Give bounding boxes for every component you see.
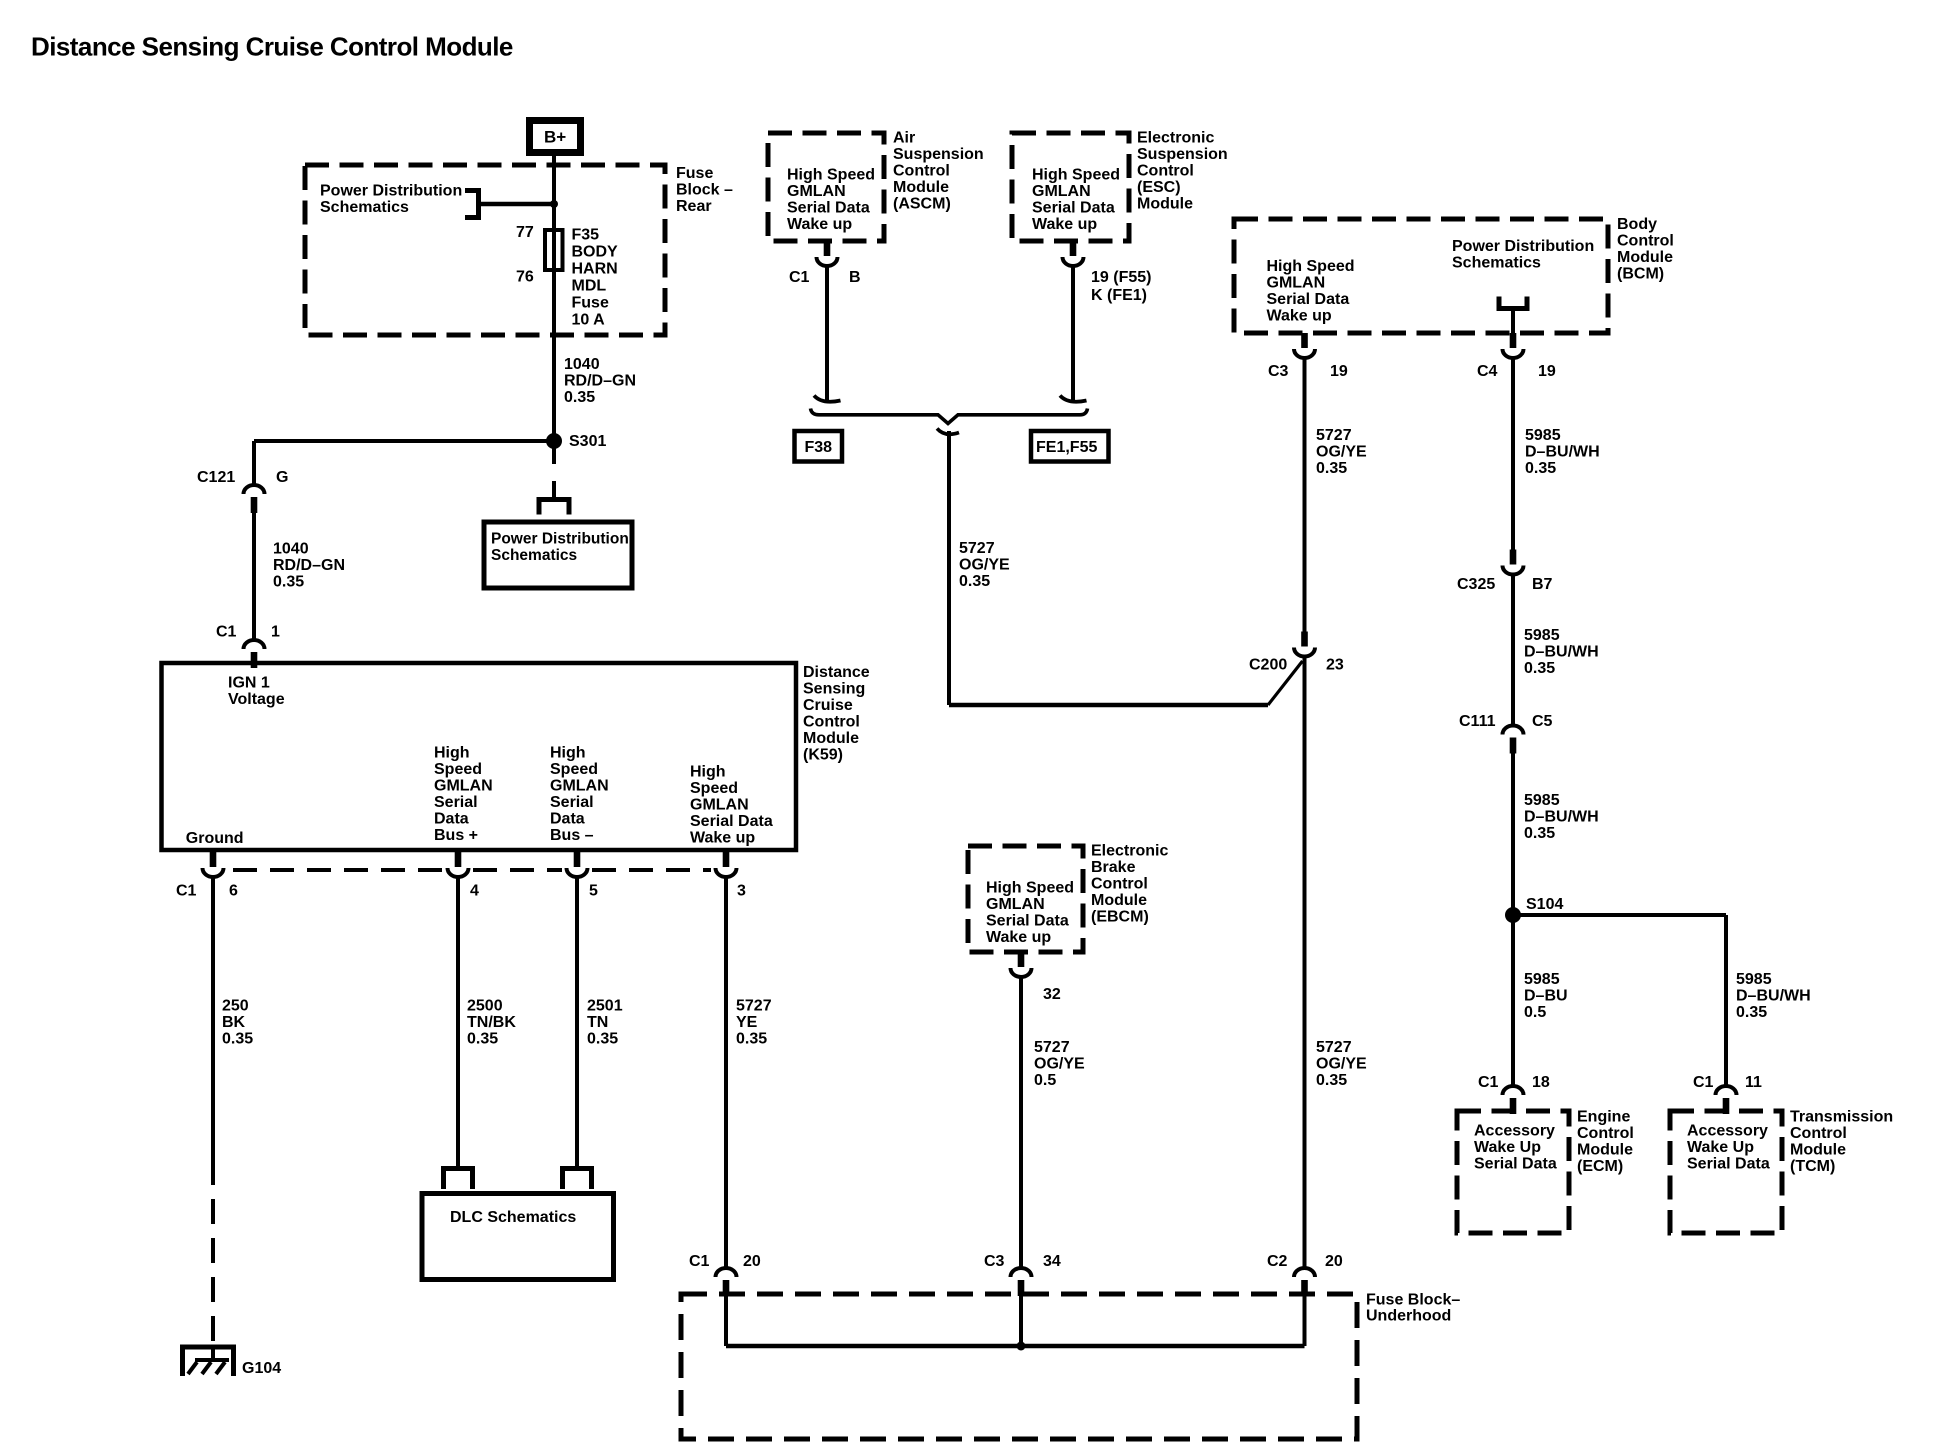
- svg-text:Control: Control: [1617, 233, 1674, 250]
- svg-text:11: 11: [1745, 1074, 1762, 1091]
- svg-text:DLC Schematics: DLC Schematics: [450, 1209, 576, 1226]
- svg-text:Wake Up: Wake Up: [1687, 1139, 1754, 1156]
- svg-text:C3: C3: [984, 1253, 1005, 1270]
- svg-text:Distance Sensing Cruise Contro: Distance Sensing Cruise Control Module: [31, 32, 513, 62]
- svg-text:High: High: [690, 764, 726, 781]
- svg-text:High Speed: High Speed: [1032, 167, 1120, 184]
- svg-text:Module: Module: [893, 179, 949, 196]
- svg-text:0.35: 0.35: [1524, 825, 1555, 842]
- svg-text:6: 6: [229, 883, 238, 900]
- svg-text:Schematics: Schematics: [491, 547, 577, 564]
- svg-text:Fuse: Fuse: [676, 165, 713, 182]
- svg-text:Wake up: Wake up: [787, 216, 852, 233]
- svg-text:RD/D–GN: RD/D–GN: [273, 557, 345, 574]
- svg-text:34: 34: [1043, 1253, 1061, 1270]
- svg-text:C4: C4: [1477, 363, 1498, 380]
- svg-text:23: 23: [1326, 657, 1344, 674]
- svg-text:K (FE1): K (FE1): [1091, 287, 1147, 304]
- svg-text:0.35: 0.35: [222, 1031, 253, 1048]
- svg-text:19 (F55): 19 (F55): [1091, 269, 1151, 286]
- svg-text:BODY: BODY: [572, 244, 619, 261]
- svg-text:32: 32: [1043, 986, 1061, 1003]
- svg-text:GMLAN: GMLAN: [1267, 275, 1326, 292]
- svg-text:B: B: [849, 269, 861, 286]
- svg-text:G104: G104: [242, 1360, 281, 1377]
- svg-text:Schematics: Schematics: [320, 199, 409, 216]
- svg-text:Power Distribution: Power Distribution: [1452, 238, 1594, 255]
- svg-text:C1: C1: [789, 269, 810, 286]
- svg-text:MDL: MDL: [572, 278, 607, 295]
- svg-text:TN: TN: [587, 1014, 608, 1031]
- svg-text:Wake up: Wake up: [1032, 216, 1097, 233]
- svg-text:YE: YE: [736, 1014, 758, 1031]
- svg-text:5985: 5985: [1524, 792, 1560, 809]
- svg-text:Bus –: Bus –: [550, 827, 594, 844]
- svg-text:0.35: 0.35: [587, 1031, 618, 1048]
- svg-text:Wake Up: Wake Up: [1474, 1139, 1541, 1156]
- svg-text:Control: Control: [1790, 1125, 1847, 1142]
- svg-text:5727: 5727: [1034, 1039, 1070, 1056]
- svg-text:Accessory: Accessory: [1474, 1123, 1555, 1140]
- svg-text:C325: C325: [1457, 576, 1495, 593]
- svg-text:0.35: 0.35: [1525, 460, 1556, 477]
- svg-text:Module: Module: [1577, 1142, 1633, 1159]
- svg-text:Wake up: Wake up: [690, 830, 755, 847]
- svg-text:GMLAN: GMLAN: [787, 183, 846, 200]
- svg-text:D–BU/WH: D–BU/WH: [1524, 644, 1599, 661]
- svg-text:S301: S301: [569, 433, 606, 450]
- svg-text:Fuse: Fuse: [572, 295, 609, 312]
- svg-text:GMLAN: GMLAN: [690, 797, 749, 814]
- svg-text:Rear: Rear: [676, 198, 712, 215]
- svg-text:TN/BK: TN/BK: [467, 1014, 516, 1031]
- svg-text:GMLAN: GMLAN: [1032, 183, 1091, 200]
- svg-text:C1: C1: [1478, 1074, 1499, 1091]
- svg-text:10 A: 10 A: [572, 312, 606, 329]
- svg-text:Power Distribution: Power Distribution: [491, 530, 629, 547]
- svg-text:B+: B+: [544, 127, 566, 146]
- svg-text:G: G: [276, 469, 288, 486]
- svg-text:Cruise: Cruise: [803, 697, 853, 714]
- svg-text:Control: Control: [1577, 1125, 1634, 1142]
- svg-text:5727: 5727: [1316, 1039, 1352, 1056]
- svg-text:(EBCM): (EBCM): [1091, 909, 1149, 926]
- svg-text:19: 19: [1330, 363, 1348, 380]
- svg-text:Serial: Serial: [434, 794, 478, 811]
- svg-text:19: 19: [1538, 363, 1556, 380]
- svg-text:Serial Data: Serial Data: [1687, 1156, 1770, 1173]
- svg-text:OG/YE: OG/YE: [1316, 1056, 1367, 1073]
- svg-text:Speed: Speed: [550, 761, 598, 778]
- svg-text:High Speed: High Speed: [787, 167, 875, 184]
- svg-text:C1: C1: [1693, 1074, 1714, 1091]
- svg-text:0.35: 0.35: [273, 574, 304, 591]
- svg-text:OG/YE: OG/YE: [1034, 1056, 1085, 1073]
- svg-text:C1: C1: [176, 883, 197, 900]
- svg-text:5727: 5727: [1316, 427, 1352, 444]
- svg-text:0.5: 0.5: [1034, 1072, 1056, 1089]
- svg-text:Brake: Brake: [1091, 859, 1136, 876]
- svg-text:Electronic: Electronic: [1091, 843, 1168, 860]
- svg-text:Underhood: Underhood: [1366, 1308, 1451, 1325]
- svg-text:(K59): (K59): [803, 747, 843, 764]
- svg-text:Module: Module: [803, 730, 859, 747]
- svg-text:0.5: 0.5: [1524, 1004, 1546, 1021]
- svg-text:Transmission: Transmission: [1790, 1109, 1893, 1126]
- svg-text:4: 4: [470, 883, 479, 900]
- svg-text:B7: B7: [1532, 576, 1553, 593]
- svg-text:5985: 5985: [1524, 627, 1560, 644]
- svg-text:Module: Module: [1617, 249, 1673, 266]
- svg-text:F35: F35: [572, 227, 600, 244]
- svg-text:Serial Data: Serial Data: [1032, 200, 1115, 217]
- svg-text:0.35: 0.35: [959, 573, 990, 590]
- svg-text:Control: Control: [1091, 876, 1148, 893]
- svg-text:C2: C2: [1267, 1253, 1288, 1270]
- svg-text:Serial Data: Serial Data: [690, 813, 773, 830]
- svg-text:Serial Data: Serial Data: [1267, 291, 1350, 308]
- svg-text:20: 20: [743, 1253, 761, 1270]
- svg-text:3: 3: [737, 883, 746, 900]
- svg-text:High Speed: High Speed: [986, 880, 1074, 897]
- svg-text:5985: 5985: [1736, 971, 1772, 988]
- svg-text:D–BU: D–BU: [1524, 988, 1568, 1005]
- svg-text:2500: 2500: [467, 998, 503, 1015]
- svg-text:(BCM): (BCM): [1617, 266, 1664, 283]
- svg-text:Schematics: Schematics: [1452, 255, 1541, 272]
- svg-text:(ESC): (ESC): [1137, 179, 1181, 196]
- svg-text:(ECM): (ECM): [1577, 1158, 1623, 1175]
- svg-text:Serial Data: Serial Data: [986, 913, 1069, 930]
- svg-text:0.35: 0.35: [1316, 460, 1347, 477]
- svg-text:C121: C121: [197, 469, 235, 486]
- svg-text:0.35: 0.35: [1316, 1072, 1347, 1089]
- svg-text:5985: 5985: [1524, 971, 1560, 988]
- svg-text:FE1,F55: FE1,F55: [1036, 439, 1097, 456]
- svg-text:High: High: [550, 745, 586, 762]
- svg-text:18: 18: [1532, 1074, 1550, 1091]
- svg-text:GMLAN: GMLAN: [986, 896, 1045, 913]
- svg-text:20: 20: [1325, 1253, 1343, 1270]
- svg-text:76: 76: [516, 269, 534, 286]
- svg-text:Bus +: Bus +: [434, 827, 478, 844]
- svg-text:OG/YE: OG/YE: [959, 557, 1010, 574]
- svg-text:Control: Control: [1137, 163, 1194, 180]
- svg-text:250: 250: [222, 998, 249, 1015]
- svg-text:0.35: 0.35: [467, 1031, 498, 1048]
- svg-text:High Speed: High Speed: [1267, 258, 1355, 275]
- svg-text:Module: Module: [1137, 196, 1193, 213]
- svg-text:C3: C3: [1268, 363, 1289, 380]
- svg-text:(TCM): (TCM): [1790, 1158, 1835, 1175]
- svg-text:C111: C111: [1459, 713, 1496, 730]
- svg-text:Serial: Serial: [550, 794, 594, 811]
- svg-text:5727: 5727: [959, 540, 995, 557]
- svg-text:BK: BK: [222, 1014, 246, 1031]
- svg-text:High: High: [434, 745, 470, 762]
- svg-text:S104: S104: [1526, 896, 1563, 913]
- svg-text:GMLAN: GMLAN: [550, 778, 609, 795]
- svg-text:Power Distribution: Power Distribution: [320, 183, 462, 200]
- svg-text:1: 1: [271, 624, 280, 641]
- svg-text:Wake up: Wake up: [1267, 308, 1332, 325]
- svg-text:Speed: Speed: [434, 761, 482, 778]
- svg-text:F38: F38: [805, 439, 833, 456]
- svg-text:C1: C1: [689, 1253, 710, 1270]
- svg-text:D–BU/WH: D–BU/WH: [1525, 444, 1600, 461]
- svg-text:Sensing: Sensing: [803, 681, 865, 698]
- svg-text:Distance: Distance: [803, 664, 870, 681]
- svg-text:0.35: 0.35: [1736, 1004, 1767, 1021]
- svg-text:Serial Data: Serial Data: [787, 200, 870, 217]
- svg-text:D–BU/WH: D–BU/WH: [1736, 988, 1811, 1005]
- svg-text:Data: Data: [434, 811, 469, 828]
- svg-text:OG/YE: OG/YE: [1316, 444, 1367, 461]
- svg-text:Air: Air: [893, 130, 915, 147]
- svg-text:77: 77: [516, 224, 534, 241]
- svg-text:Wake up: Wake up: [986, 929, 1051, 946]
- svg-text:RD/D–GN: RD/D–GN: [564, 373, 636, 390]
- svg-text:Accessory: Accessory: [1687, 1123, 1768, 1140]
- svg-text:Engine: Engine: [1577, 1109, 1630, 1126]
- svg-text:(ASCM): (ASCM): [893, 196, 951, 213]
- svg-text:Electronic: Electronic: [1137, 130, 1214, 147]
- svg-text:5: 5: [589, 883, 598, 900]
- svg-text:Suspension: Suspension: [1137, 146, 1228, 163]
- svg-text:Module: Module: [1091, 892, 1147, 909]
- svg-text:Block –: Block –: [676, 182, 733, 199]
- svg-text:HARN: HARN: [572, 261, 618, 278]
- svg-text:Module: Module: [1790, 1142, 1846, 1159]
- svg-text:0.35: 0.35: [564, 389, 595, 406]
- svg-text:D–BU/WH: D–BU/WH: [1524, 809, 1599, 826]
- svg-text:Suspension: Suspension: [893, 146, 984, 163]
- svg-text:Control: Control: [893, 163, 950, 180]
- svg-text:Voltage: Voltage: [228, 691, 285, 708]
- svg-text:Speed: Speed: [690, 780, 738, 797]
- svg-text:Body: Body: [1617, 216, 1657, 233]
- svg-text:Control: Control: [803, 714, 860, 731]
- svg-text:1040: 1040: [564, 356, 600, 373]
- svg-text:5985: 5985: [1525, 427, 1561, 444]
- svg-text:C5: C5: [1532, 713, 1553, 730]
- svg-text:IGN 1: IGN 1: [228, 675, 270, 692]
- svg-text:Serial Data: Serial Data: [1474, 1156, 1557, 1173]
- svg-text:Fuse Block–: Fuse Block–: [1366, 1292, 1460, 1309]
- svg-text:0.35: 0.35: [736, 1031, 767, 1048]
- svg-text:Ground: Ground: [186, 830, 244, 847]
- svg-text:5727: 5727: [736, 998, 772, 1015]
- svg-text:2501: 2501: [587, 998, 623, 1015]
- svg-text:C1: C1: [216, 624, 237, 641]
- svg-text:0.35: 0.35: [1524, 660, 1555, 677]
- svg-text:C200: C200: [1249, 657, 1287, 674]
- svg-text:Data: Data: [550, 811, 585, 828]
- svg-text:1040: 1040: [273, 541, 309, 558]
- svg-text:GMLAN: GMLAN: [434, 778, 493, 795]
